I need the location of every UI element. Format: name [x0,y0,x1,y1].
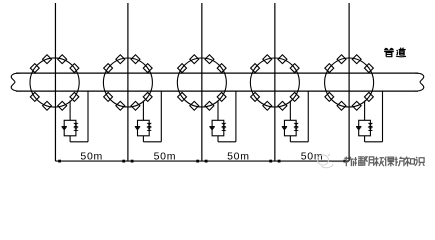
label: pipeline text DAO (hand-drawn CJK) [396,48,406,57]
svg-text:50m: 50m [301,151,324,163]
svg-text:50m: 50m [80,151,103,163]
anode diamonds ring 2 [104,55,153,111]
anode diamonds ring 1 [30,55,79,111]
anode ring circle 4 [250,58,299,107]
wire: datum line 1 [54,3,56,161]
decoupler unit 1 [62,91,89,142]
wire: datum line 3 [201,3,203,161]
pipe break symbol right [415,73,424,91]
pipe break symbol left [11,73,20,91]
anode ring circle 3 [177,58,226,107]
anode ring circle 5 [325,58,374,107]
anode diamonds ring 5 [325,55,374,111]
dimension tick squares [58,160,346,163]
wire: datum line 4 [274,3,276,161]
watermark logo [316,154,333,168]
watermark char YIN [365,157,374,166]
svg-text:50m: 50m [227,151,250,163]
watermark dash [332,160,343,162]
anode ring circle 2 [103,58,152,107]
decoupler unit 2 [135,91,162,142]
wire: datum line 5 [348,3,350,161]
wire: pipe top line [16,72,418,74]
watermark char JI [375,157,385,167]
wire: datum line 2 [127,3,129,161]
decoupler unit 5 [356,91,383,142]
watermark char XIN [344,157,353,167]
watermark char HU [395,157,404,167]
wire: pipe bottom line [16,90,418,92]
anode ring circle 1 [30,58,79,107]
anode diamonds ring 3 [178,55,227,111]
dimension line [55,160,349,162]
decoupler unit 4 [282,91,309,142]
watermark char JIANG [354,157,364,166]
anode diamonds ring 4 [251,55,300,111]
label: pipeline text GUAN (hand-drawn CJK) [384,48,394,57]
decoupler unit 3 [209,91,236,142]
watermark char BAO [385,157,395,167]
svg-text:50m: 50m [154,151,177,163]
watermark char SHI [415,157,424,166]
watermark char ZHI [405,157,415,167]
